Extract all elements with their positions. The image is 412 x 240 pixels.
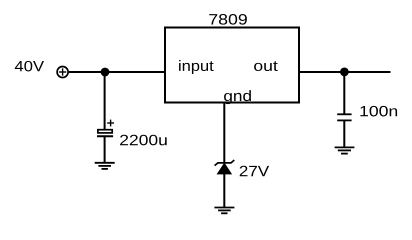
ground (below C1)	[95, 163, 115, 169]
label 27V	[240, 166, 269, 176]
wire: gnd pin down to zener D1	[223, 103, 225, 163]
ground (below C2)	[335, 147, 355, 153]
junction node B (output node)	[340, 68, 349, 77]
op-amp U1 regulator 7809 box	[165, 28, 299, 103]
pin label input	[179, 60, 214, 74]
wire: C1 to ground	[104, 136, 106, 163]
wire: node B down to C2	[343, 72, 345, 114]
label 2200u	[120, 135, 167, 146]
zener diode D1 (cathode bar with bent ends)	[215, 160, 235, 174]
junction node A (input node)	[101, 68, 110, 77]
label 7809	[209, 14, 247, 25]
label 40V	[15, 61, 44, 72]
wire input: terminal to regulator input pin	[69, 71, 165, 73]
wire: C2 to ground	[343, 120, 345, 147]
capacitor C2 100n	[337, 114, 351, 120]
wire output: regulator out pin to right edge	[300, 71, 391, 73]
wire: zener D1 to ground	[223, 174, 225, 208]
pin label out	[254, 61, 278, 71]
terminal P1 (+ input terminal)	[57, 67, 68, 78]
label 100n	[360, 106, 397, 117]
ground (below zener D1)	[214, 208, 234, 214]
pin label gnd	[224, 90, 251, 104]
capacitor C1 2200u (electrolytic, polarized)	[97, 120, 114, 137]
wire: node A down to C1	[104, 72, 106, 129]
